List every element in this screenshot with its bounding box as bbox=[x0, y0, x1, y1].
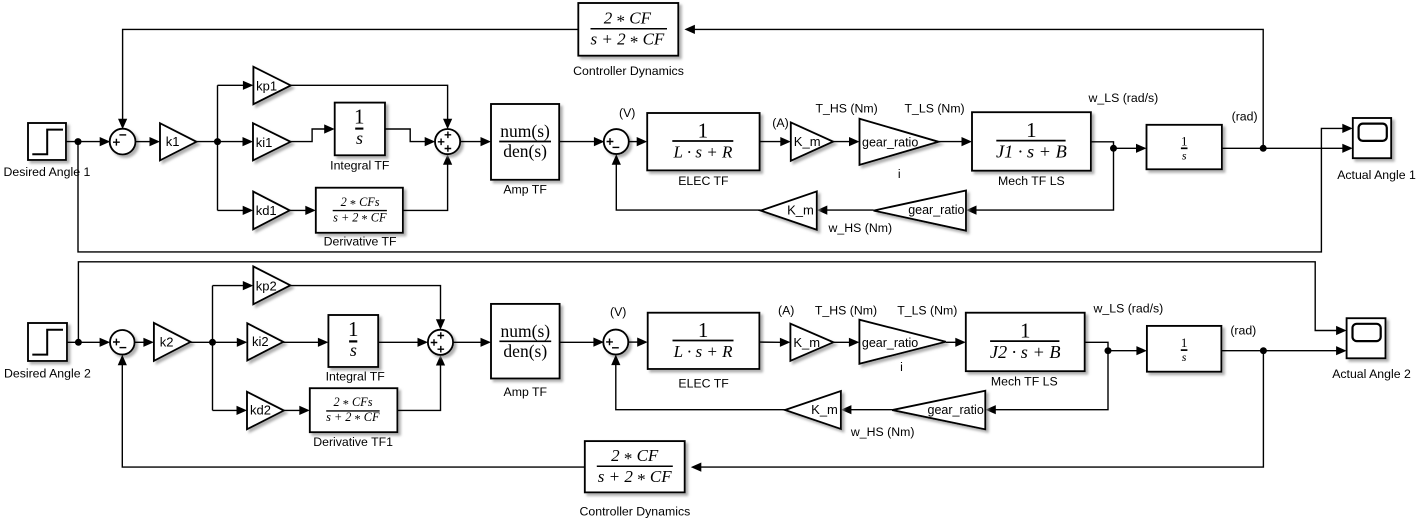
arrow into K_m loop2 bbox=[780, 338, 791, 347]
arrow into kp2 bbox=[243, 281, 254, 290]
svg-text:1: 1 bbox=[348, 317, 359, 341]
arrow into sum3 bottom bbox=[612, 154, 621, 165]
svg-text:k1: k1 bbox=[166, 134, 180, 149]
svg-text:Actual Angle 2: Actual Angle 2 bbox=[1332, 367, 1411, 381]
svg-text:T_HS (Nm): T_HS (Nm) bbox=[815, 304, 877, 318]
svg-text:1: 1 bbox=[1181, 133, 1188, 148]
arrow into sum2 bottom bbox=[443, 154, 452, 165]
integrator 1/s loop1 bbox=[1147, 125, 1222, 170]
wire Amp TF 2 to sum6 bbox=[560, 341, 594, 343]
arrow into gear_ratio loop2 bbox=[849, 338, 860, 347]
arrow into Controller Dynamics 2 bbox=[691, 463, 702, 472]
node theta2 bbox=[1260, 347, 1267, 354]
arrow into Mech TF loop1 bbox=[962, 137, 973, 146]
svg-text:(V): (V) bbox=[619, 106, 635, 120]
svg-text:ki2: ki2 bbox=[252, 334, 269, 349]
arrow into kd2 bbox=[237, 406, 248, 415]
wire k1 to branch node bbox=[197, 141, 244, 143]
node after k1 bbox=[214, 138, 221, 145]
svg-text:s: s bbox=[1182, 350, 1187, 364]
label w_LS (rad/s) loop1 bbox=[1088, 91, 1159, 105]
arrow into sum5 left bbox=[418, 338, 429, 347]
sum junction Sum6 (voltage, loop2) bbox=[603, 330, 628, 355]
label T_HS (Nm) loop1 bbox=[816, 102, 878, 116]
svg-text:s: s bbox=[350, 340, 357, 360]
transfer-fcn Controller Dynamics loop1 bbox=[573, 3, 684, 78]
wire K_m fb to sum3 bottom loop1 bbox=[616, 163, 760, 210]
svg-text:w_LS (rad/s): w_LS (rad/s) bbox=[1093, 302, 1164, 316]
wire kd1 to derivative bbox=[290, 209, 306, 211]
wire integrator 2 to scope2 bbox=[1221, 350, 1337, 352]
arrow into sum2 top bbox=[443, 119, 452, 130]
gain K_m feedback loop2 bbox=[785, 391, 841, 429]
transfer-fcn Integral TF (1/s) loop1 bbox=[330, 103, 390, 173]
svg-text:w_LS (rad/s): w_LS (rad/s) bbox=[1088, 91, 1159, 105]
arrow into K_m loop1 bbox=[780, 137, 791, 146]
arrow into gear_ratio fb loop2 bbox=[985, 405, 996, 414]
svg-text:1: 1 bbox=[698, 119, 709, 143]
arrow into gear_ratio fb loop1 bbox=[966, 206, 977, 215]
arrow into ki1 bbox=[243, 137, 254, 146]
wire sum5 to Amp TF 2 bbox=[453, 341, 481, 343]
svg-text:T_LS (Nm): T_LS (Nm) bbox=[897, 304, 957, 318]
gain K_m feedback loop1 bbox=[761, 191, 817, 229]
wire Controller Dynamics to sum1 top bbox=[123, 29, 579, 119]
wire step1 to sum1 bbox=[66, 141, 101, 143]
svg-text:Derivative TF1: Derivative TF1 bbox=[313, 435, 393, 449]
svg-text:w_HS (Nm): w_HS (Nm) bbox=[850, 425, 915, 439]
wire K_m to gear_ratio bbox=[833, 141, 850, 143]
arrow into kp1 bbox=[243, 81, 254, 90]
svg-text:Derivative TF: Derivative TF bbox=[324, 234, 397, 248]
label (A) loop1 bbox=[772, 116, 788, 130]
label i loop1 bbox=[898, 167, 901, 181]
wire branch to kd2 bbox=[213, 409, 238, 411]
svg-text:Mech TF LS: Mech TF LS bbox=[998, 174, 1065, 188]
label (A) loop2 bbox=[778, 304, 794, 318]
arrow into k2 bbox=[143, 338, 154, 347]
step source Desired Angle 2 bbox=[4, 323, 91, 380]
gain kp2 bbox=[253, 266, 290, 304]
svg-text:i: i bbox=[900, 360, 903, 374]
arrow into sum4 bottom bbox=[118, 355, 127, 366]
gain kd1 bbox=[253, 192, 290, 230]
arrow into k1 bbox=[150, 137, 161, 146]
arrow into integrator loop1 bbox=[1136, 144, 1147, 153]
transfer-fcn Integral TF (1/s) loop2 bbox=[326, 315, 386, 384]
sum junction Sum5 (PID, loop2) bbox=[428, 330, 453, 355]
svg-text:Actual Angle 1: Actual Angle 1 bbox=[1337, 168, 1416, 182]
scope Actual Angle 2 bbox=[1332, 318, 1411, 381]
svg-text:gear_ratio: gear_ratio bbox=[928, 403, 984, 417]
arrow into scope2 lower port bbox=[1336, 346, 1347, 355]
arrow into sum3 bbox=[594, 137, 605, 146]
wire branch to kd1 bbox=[218, 209, 244, 211]
svg-text:s + 2 * CF: s + 2 * CF bbox=[333, 210, 387, 226]
label w_HS (Nm) loop2 bbox=[850, 425, 915, 439]
arrow into sum5 top bbox=[436, 319, 445, 330]
svg-text:kd1: kd1 bbox=[256, 203, 277, 218]
label w_LS (rad/s) loop2 bbox=[1093, 302, 1164, 316]
arrow into integrator loop2 bbox=[1136, 346, 1147, 355]
wire gear_ratio 2 to Mech TF 2 bbox=[946, 341, 956, 343]
svg-text:gear_ratio: gear_ratio bbox=[862, 135, 918, 149]
svg-text:1: 1 bbox=[1181, 335, 1188, 350]
gain gear_ratio feedback loop1 bbox=[874, 191, 966, 231]
label (rad) loop1 bbox=[1232, 110, 1258, 124]
wire kp1 to sum2 top bbox=[291, 85, 448, 119]
gain gear_ratio forward loop1 bbox=[860, 119, 939, 165]
transfer-fcn Derivative TF1 loop2 bbox=[310, 388, 398, 449]
node w_LS loop2 bbox=[1105, 347, 1112, 354]
label (V) loop2 bbox=[610, 305, 626, 319]
label T_LS (Nm) loop1 bbox=[905, 102, 965, 116]
svg-text:i: i bbox=[898, 167, 901, 181]
svg-text:Amp TF: Amp TF bbox=[503, 182, 547, 196]
arrow into scope2 upper port bbox=[1336, 326, 1347, 335]
svg-text:2 * CF: 2 * CF bbox=[611, 446, 659, 468]
svg-text:ki1: ki1 bbox=[256, 135, 273, 150]
gain gear_ratio forward loop2 bbox=[859, 320, 945, 364]
svg-text:num(s): num(s) bbox=[501, 321, 551, 341]
wire sum2 to Amp TF bbox=[460, 141, 481, 143]
gain ki2 bbox=[247, 323, 283, 360]
wire Mech TF 2 to integrator 2 (jog) bbox=[1085, 342, 1138, 350]
transfer-fcn Amp TF loop1 bbox=[491, 104, 559, 196]
wire Controller Dynamics 2 to sum4 bottom bbox=[122, 364, 585, 467]
svg-text:2 * CFs: 2 * CFs bbox=[341, 195, 380, 211]
arrow into K_m fb loop1 bbox=[817, 206, 828, 215]
wire sum1 to k1 bbox=[135, 141, 151, 143]
label i loop2 bbox=[900, 360, 903, 374]
gain k2 bbox=[154, 323, 191, 361]
svg-text:(A): (A) bbox=[772, 116, 788, 130]
integrator 1/s loop2 bbox=[1147, 326, 1222, 372]
arrow into ELEC TF 2 bbox=[637, 338, 648, 347]
svg-text:k2: k2 bbox=[160, 335, 174, 350]
svg-text:L · s + R: L · s + R bbox=[673, 342, 733, 361]
svg-text:den(s): den(s) bbox=[503, 141, 547, 161]
wire gear_ratio to Mech TF bbox=[939, 141, 963, 143]
arrow into scope1 lower port bbox=[1342, 144, 1353, 153]
label (V) loop1 bbox=[619, 106, 635, 120]
arrow into sum5 bottom bbox=[436, 355, 445, 366]
step source Desired Angle 1 bbox=[3, 123, 90, 179]
wire derivative2 to sum5 bottom bbox=[397, 365, 440, 411]
wire integral to sum2 (jog down) bbox=[385, 129, 425, 142]
wire branch to kp2 bbox=[213, 285, 244, 287]
svg-text:T_HS (Nm): T_HS (Nm) bbox=[816, 102, 878, 116]
label (rad) loop2 bbox=[1230, 324, 1256, 338]
gain gear_ratio feedback loop2 bbox=[892, 391, 985, 430]
svg-text:(A): (A) bbox=[778, 304, 794, 318]
node w_LS loop1 bbox=[1110, 145, 1117, 152]
svg-text:K_m: K_m bbox=[794, 134, 821, 149]
svg-text:1: 1 bbox=[1020, 319, 1031, 343]
svg-text:2 * CFs: 2 * CFs bbox=[334, 395, 373, 411]
wire derivative to sum2 bottom bbox=[403, 164, 448, 211]
svg-text:Integral TF: Integral TF bbox=[326, 370, 386, 384]
wire branch vertical kp1-kd1 bbox=[217, 85, 219, 210]
arrow into Amp TF bbox=[481, 137, 492, 146]
gain K_m forward loop2 bbox=[790, 324, 833, 361]
svg-text:Mech TF LS: Mech TF LS bbox=[991, 374, 1058, 388]
svg-text:Controller Dynamics: Controller Dynamics bbox=[573, 64, 684, 78]
svg-text:(rad): (rad) bbox=[1230, 324, 1256, 338]
svg-text:s: s bbox=[356, 128, 363, 148]
arrow into K_m fb loop2 bbox=[841, 405, 852, 414]
wire theta1 up to Controller Dynamics bbox=[694, 29, 1263, 148]
arrow into Derivative TF bbox=[305, 206, 316, 215]
arrow into Mech TF loop2 bbox=[955, 338, 966, 347]
wire ki1 to integral (jog up) bbox=[291, 129, 325, 142]
wire theta2 down to Controller Dynamics 2 bbox=[701, 351, 1264, 467]
wire integrator to scope1 bbox=[1222, 147, 1344, 149]
svg-text:s + 2 * CF: s + 2 * CF bbox=[590, 30, 664, 52]
wire desired2 to scope2 upper port bbox=[78, 262, 1337, 343]
arrow into sum1 top bbox=[118, 119, 127, 130]
wire sum6 to ELEC TF 2 bbox=[628, 341, 638, 343]
wire ki2 to integral 2 bbox=[283, 341, 318, 343]
svg-text:s: s bbox=[1182, 148, 1187, 162]
scope Actual Angle 1 bbox=[1337, 118, 1416, 182]
wire k2 to branch node bbox=[191, 341, 238, 343]
svg-text:s + 2 * CF: s + 2 * CF bbox=[326, 410, 380, 426]
wire Amp TF to sum3 bbox=[559, 141, 594, 143]
wire kp2 to sum5 top bbox=[290, 286, 440, 320]
svg-text:J1 · s + B: J1 · s + B bbox=[996, 142, 1067, 162]
node after k2 bbox=[209, 339, 216, 346]
gain K_m forward loop1 bbox=[791, 122, 833, 160]
label w_HS (Nm) loop1 bbox=[828, 221, 893, 235]
arrow into sum1 bbox=[100, 137, 111, 146]
transfer-fcn Derivative TF loop1 bbox=[316, 188, 403, 249]
svg-text:1: 1 bbox=[698, 318, 709, 342]
svg-text:Controller Dynamics: Controller Dynamics bbox=[580, 505, 691, 519]
arrow into Integral TF bbox=[324, 124, 335, 133]
wire gear fb 2 to K_m fb 2 bbox=[851, 409, 893, 411]
gain kd2 bbox=[247, 392, 284, 430]
svg-text:kp2: kp2 bbox=[256, 279, 277, 294]
transfer-fcn ELEC TF loop2 bbox=[648, 313, 760, 391]
wire Mech TF to integrator (jog) bbox=[1091, 142, 1137, 149]
svg-text:kd2: kd2 bbox=[250, 403, 271, 418]
sum junction Sum1 (error, loop1) bbox=[110, 129, 136, 155]
wire sum3 to ELEC TF bbox=[628, 141, 637, 143]
wire w_LS 2 down to gear_ratio fb loop2 bbox=[995, 351, 1108, 410]
svg-text:(rad): (rad) bbox=[1232, 110, 1258, 124]
wire w_LS down to gear_ratio fb loop1 bbox=[976, 148, 1114, 210]
wire branch vertical kp2-kd2 bbox=[212, 286, 214, 411]
wire branch to kp1 bbox=[218, 84, 244, 86]
svg-text:1: 1 bbox=[354, 105, 365, 129]
svg-text:Amp TF: Amp TF bbox=[504, 385, 548, 399]
transfer-fcn Amp TF loop2 bbox=[491, 304, 560, 399]
arrow into Integral TF 2 bbox=[318, 338, 329, 347]
gain k1 bbox=[160, 123, 197, 160]
wire sum4 to k2 bbox=[135, 341, 145, 343]
svg-text:gear_ratio: gear_ratio bbox=[908, 203, 964, 217]
svg-text:T_LS (Nm): T_LS (Nm) bbox=[905, 102, 965, 116]
sum junction Sum4 (error, loop2) bbox=[110, 330, 135, 355]
wire kd2 to derivative 2 bbox=[284, 409, 300, 411]
transfer-fcn Controller Dynamics loop2 bbox=[580, 441, 691, 518]
arrow into sum6 bottom bbox=[611, 355, 620, 366]
arrow into Controller Dynamics 1 bbox=[684, 25, 695, 34]
svg-text:L · s + R: L · s + R bbox=[672, 143, 732, 162]
svg-text:kp1: kp1 bbox=[256, 79, 277, 94]
svg-text:w_HS (Nm): w_HS (Nm) bbox=[828, 221, 893, 235]
svg-text:gear_ratio: gear_ratio bbox=[862, 336, 918, 350]
wire step2 to sum4 bbox=[67, 341, 100, 343]
label T_HS (Nm) loop2 bbox=[815, 304, 877, 318]
node desired1 branch bbox=[75, 138, 82, 145]
transfer-fcn ELEC TF loop1 bbox=[647, 113, 759, 188]
wire K_m 2 to gear_ratio 2 bbox=[833, 341, 849, 343]
svg-text:J2 · s + B: J2 · s + B bbox=[990, 342, 1061, 362]
svg-text:1: 1 bbox=[1026, 118, 1037, 142]
svg-text:ELEC TF: ELEC TF bbox=[678, 174, 729, 188]
wire ELEC TF to K_m bbox=[760, 141, 781, 143]
sum junction Sum2 (PID, loop1) bbox=[435, 129, 460, 154]
svg-text:den(s): den(s) bbox=[503, 341, 547, 361]
arrow into Derivative TF1 bbox=[299, 406, 310, 415]
wire gear fb to K_m fb loop1 bbox=[827, 209, 874, 211]
sum junction Sum3 (voltage, loop1) bbox=[604, 129, 629, 154]
node theta1 bbox=[1260, 145, 1267, 152]
svg-text:Integral TF: Integral TF bbox=[330, 158, 390, 172]
label T_LS (Nm) loop2 bbox=[897, 304, 957, 318]
svg-text:num(s): num(s) bbox=[500, 121, 550, 141]
wire integral2 to sum5 bbox=[378, 341, 418, 343]
transfer-fcn Mech TF LS loop2 bbox=[966, 313, 1085, 389]
svg-text:Desired Angle 2: Desired Angle 2 bbox=[4, 366, 91, 380]
arrow into sum6 bbox=[593, 338, 604, 347]
arrow into gear_ratio loop1 bbox=[849, 137, 860, 146]
wire ELEC TF 2 to K_m 2 bbox=[759, 341, 780, 343]
gain ki1 bbox=[253, 123, 291, 160]
svg-text:K_m: K_m bbox=[787, 203, 814, 218]
svg-text:(V): (V) bbox=[610, 305, 626, 319]
arrow into ELEC TF bbox=[637, 137, 648, 146]
svg-text:K_m: K_m bbox=[811, 402, 838, 417]
svg-text:s + 2 * CF: s + 2 * CF bbox=[598, 467, 672, 489]
gain kp1 bbox=[253, 67, 290, 105]
wire desired1 to scope1 upper port bbox=[78, 128, 1344, 252]
node desired2 branch bbox=[75, 339, 82, 346]
arrow into Amp TF 2 bbox=[481, 338, 492, 347]
arrow into ki2 bbox=[237, 338, 248, 347]
transfer-fcn Mech TF LS loop1 bbox=[972, 112, 1091, 188]
arrow into kd1 bbox=[243, 206, 254, 215]
arrow into sum4 bbox=[100, 338, 111, 347]
wire K_m fb 2 to sum6 bottom loop2 bbox=[616, 363, 785, 409]
svg-text:ELEC TF: ELEC TF bbox=[678, 376, 729, 390]
arrow into scope1 upper port bbox=[1342, 124, 1353, 133]
svg-text:K_m: K_m bbox=[793, 335, 820, 350]
arrow into sum2 left bbox=[425, 137, 436, 146]
svg-text:2 * CF: 2 * CF bbox=[604, 9, 652, 31]
